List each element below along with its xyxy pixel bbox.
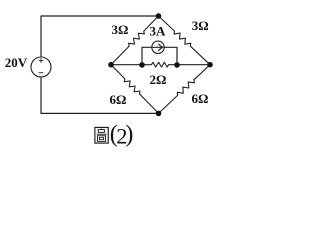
wire current-source branch right stub xyxy=(164,47,177,64)
minus sign of source xyxy=(39,72,44,74)
svg-text:6Ω: 6Ω xyxy=(110,92,127,107)
wire bottom from source to bottom node xyxy=(41,77,159,113)
svg-text:): ) xyxy=(125,122,133,148)
wire top from source to top node xyxy=(41,16,159,57)
resistor 3ohm top-right xyxy=(159,16,211,65)
node top xyxy=(156,13,162,19)
resistor 6ohm bottom-left xyxy=(111,65,159,114)
svg-text:6Ω: 6Ω xyxy=(192,91,209,106)
wire middle right segment xyxy=(177,64,210,66)
svg-text:3A: 3A xyxy=(150,24,167,39)
wire current-source branch left stub xyxy=(142,47,152,64)
plus sign of source xyxy=(39,58,44,72)
junction dot right of 2ohm xyxy=(174,62,180,68)
caption glyph tu (figure) drawn xyxy=(95,127,108,143)
node bottom xyxy=(156,111,162,117)
node right xyxy=(207,62,213,68)
svg-text:20V: 20V xyxy=(5,55,28,70)
resistor 6ohm bottom-right xyxy=(159,65,211,114)
resistor 3ohm top-left xyxy=(111,16,159,65)
svg-text:3Ω: 3Ω xyxy=(112,22,129,37)
svg-text:3Ω: 3Ω xyxy=(192,18,209,33)
voltage source V1 circle xyxy=(31,57,51,77)
node left xyxy=(108,62,114,68)
wire middle left segment xyxy=(111,64,142,66)
current source arrow xyxy=(153,46,163,48)
current source I1 circle xyxy=(152,41,164,53)
svg-text:2Ω: 2Ω xyxy=(150,72,167,87)
junction dot left of 2ohm xyxy=(139,62,145,68)
resistor 2ohm middle xyxy=(142,62,177,67)
